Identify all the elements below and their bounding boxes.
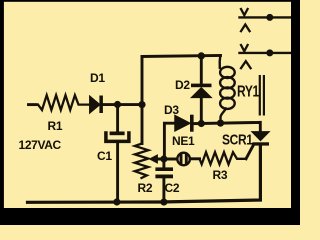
diode D3 xyxy=(175,116,190,131)
wire: SCR cathode down and bottom rail xyxy=(28,146,261,203)
node: D2 top junction xyxy=(198,52,205,59)
potentiometer R2 body xyxy=(135,144,149,179)
label C2 xyxy=(165,183,180,194)
relay contact 2 dot xyxy=(266,49,273,56)
wire: top rail xyxy=(142,56,221,57)
wire: gate lead diagonal to SCR xyxy=(246,146,253,159)
node: relay coil bottom junction xyxy=(217,120,224,127)
relay contact 1 arrow V xyxy=(241,9,248,15)
label D3 xyxy=(164,105,179,116)
wire: C2 top lead xyxy=(162,159,165,168)
frame: bottom bar xyxy=(0,208,300,225)
wire: NE1 to R3 xyxy=(190,157,199,160)
wire: C1 top lead xyxy=(116,105,119,132)
wire: riser from top rail to R2 xyxy=(141,57,144,144)
label C1 xyxy=(97,151,112,162)
wire: C2 bottom lead xyxy=(162,178,165,202)
label D1 xyxy=(90,73,105,84)
wire: C1 bottom lead xyxy=(116,143,119,202)
resistor R1 xyxy=(38,95,90,110)
label R3 xyxy=(213,170,228,181)
resistor R3 xyxy=(200,152,247,164)
node: D2 anode junction xyxy=(198,120,205,127)
node: riser junction xyxy=(138,101,145,108)
relay contact 2 arrow up xyxy=(241,61,251,68)
wire: D1 cathode to riser xyxy=(103,103,142,106)
capacitor C2 xyxy=(155,167,173,171)
capacitor C1 (electrolytic) xyxy=(110,132,125,136)
label 127VAC xyxy=(19,140,61,151)
node: C2 to bottom rail xyxy=(160,198,167,205)
relay contact 2 arrow V xyxy=(241,45,248,51)
label R2 xyxy=(138,183,153,194)
wire: junction up to D3 anode xyxy=(164,123,175,159)
relay coil RY1 xyxy=(218,56,221,68)
label SCR1 xyxy=(222,133,253,147)
node: C1 tap junction xyxy=(114,101,121,108)
relay contact 1 line xyxy=(240,16,292,18)
label RY1 xyxy=(237,85,259,99)
diode D1 xyxy=(90,96,100,112)
relay contact 2 line xyxy=(240,52,292,54)
frame: top bar xyxy=(0,0,300,2)
relay contact 1 arrow up xyxy=(241,25,250,32)
wire: AC input top lead xyxy=(29,103,37,106)
frame: right bar xyxy=(291,0,300,225)
frame: left bar xyxy=(0,0,4,225)
node: wiper / C2 / D3 junction xyxy=(160,155,167,162)
relay contact 1 dot xyxy=(266,14,273,21)
relay core bars xyxy=(259,75,261,116)
label R1 xyxy=(48,121,63,132)
node: C1 to bottom rail xyxy=(113,198,120,205)
SCR1 thyristor xyxy=(252,132,268,140)
wire: wiper to NE1 xyxy=(156,158,177,161)
diode D2 (flyback, cathode up) xyxy=(200,56,203,84)
neon lamp NE1 xyxy=(177,153,190,166)
wire: mid rail to SCR anode xyxy=(194,122,261,131)
label NE1 xyxy=(172,136,194,147)
label D2 xyxy=(175,80,190,91)
R2 wiper arrow xyxy=(150,155,157,162)
